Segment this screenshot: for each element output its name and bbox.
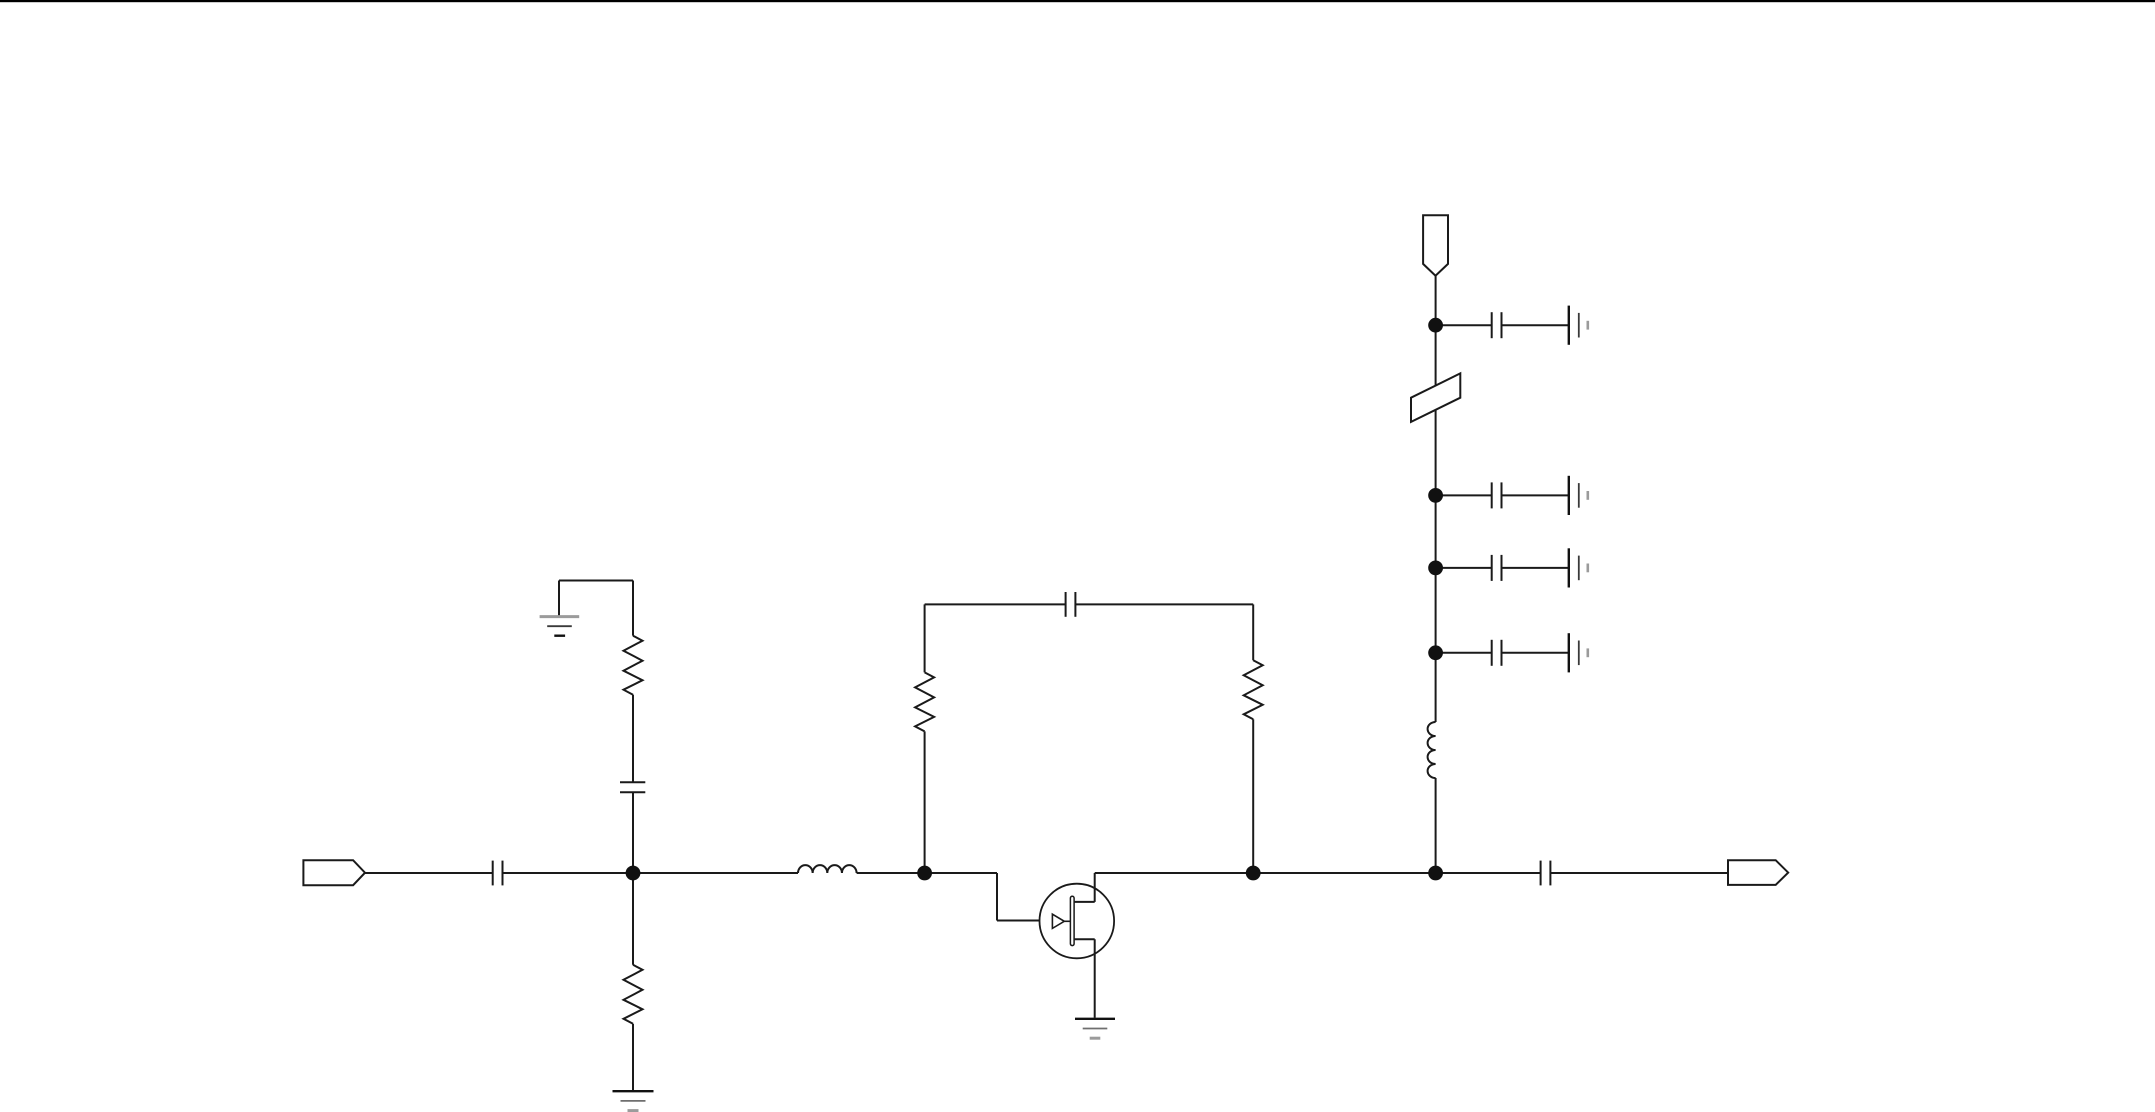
ground G2 (613, 1091, 654, 1110)
capacitor C3 plate 1 (1065, 592, 1067, 617)
wire L1 to node B (857, 872, 925, 874)
node B junction (917, 866, 932, 881)
transistor Q1 channel bar (1070, 896, 1074, 945)
wire gate vertical (996, 873, 998, 921)
wire node G to capacitor C8 (1436, 652, 1492, 654)
transistor Q1 drain tap (1074, 901, 1095, 903)
wire drain to node C (1095, 872, 1254, 874)
node C junction (1246, 866, 1261, 881)
ground G3 (1075, 1019, 1115, 1038)
wire down to resistor R4 (1252, 604, 1254, 660)
inductor L1 (798, 865, 857, 873)
transistor Q1 drain vertical (1094, 873, 1096, 902)
node D junction (1428, 866, 1443, 881)
ground G1 (540, 617, 580, 636)
wire L2 up to node E (1435, 495, 1437, 722)
node A junction (626, 866, 641, 881)
node E junction (1428, 488, 1443, 503)
wire node A down to resistor R2 (632, 873, 634, 965)
transistor Q1 gate arrow (1052, 914, 1064, 928)
capacitor C5 plate 1 (1491, 312, 1493, 338)
wire node F to capacitor C7 (1436, 567, 1492, 569)
wire node E to capacitor C6 (1436, 494, 1492, 496)
transistor Q1 source vertical (1094, 939, 1096, 1018)
ground G4 (1569, 306, 1588, 345)
resistor R3 (915, 672, 934, 731)
wire C4 to port P2 (1550, 872, 1728, 874)
wire node A up to capacitor C2 (632, 792, 634, 873)
capacitor C1 plate 2 (502, 861, 504, 886)
capacitor C4 plate 1 (1540, 861, 1542, 886)
wire C8 to ground G7 (1502, 652, 1569, 654)
ground G6 (1569, 548, 1588, 587)
wire node C to node D (1253, 872, 1435, 874)
resistor R4 (1244, 660, 1263, 719)
wire C2 to resistor R1 (632, 695, 634, 783)
transistor Q1 gate tip wire (1064, 920, 1070, 922)
capacitor C8 plate 2 (1501, 640, 1503, 666)
resistor R2 (624, 965, 643, 1024)
ground G7 (1569, 633, 1588, 672)
ground G5 (1569, 476, 1588, 515)
wire node B to gate corner (925, 872, 997, 874)
node H junction (1428, 318, 1443, 333)
wire R3 up to top rail (924, 604, 926, 672)
capacitor C6 plate 1 (1491, 482, 1493, 508)
capacitor C5 plate 2 (1501, 312, 1503, 338)
capacitor C7 plate 1 (1491, 555, 1493, 581)
wire top jog down to ground (558, 581, 560, 616)
port P3 (1423, 215, 1448, 275)
node F junction (1428, 561, 1443, 576)
wire C5 to ground G4 (1502, 324, 1569, 326)
wire C1 to node A (503, 872, 634, 874)
wire top rail right (1075, 603, 1253, 605)
wire node G up to port P3 (1435, 276, 1437, 496)
wire C6 to ground G5 (1502, 494, 1569, 496)
port P1 (303, 860, 365, 885)
node G junction (1428, 645, 1443, 660)
wire node D to capacitor C4 (1436, 872, 1541, 874)
resistor R1 (624, 636, 643, 695)
wire C7 to ground G6 (1502, 567, 1569, 569)
capacitor C4 plate 2 (1549, 861, 1551, 886)
capacitor C7 plate 2 (1501, 555, 1503, 581)
capacitor C6 plate 2 (1501, 482, 1503, 508)
capacitor C2 plate top (620, 781, 645, 783)
inductor L2 (1428, 722, 1436, 778)
wire top jog horizontal (559, 580, 633, 582)
capacitor C3 plate 2 (1074, 592, 1076, 617)
wire node A to inductor L1 (633, 872, 798, 874)
wire R1 up (632, 581, 634, 636)
port P2 (1728, 860, 1788, 885)
wire R2 to ground G2 (632, 1024, 634, 1090)
wire R4 down to node C (1252, 719, 1254, 873)
transistor Q1 body (1040, 884, 1115, 959)
top black bar (0, 0, 2155, 2)
capacitor C8 plate 1 (1491, 640, 1493, 666)
microstrip line TL1 (1411, 373, 1460, 422)
wire node D up to inductor L2 (1435, 778, 1437, 873)
port P1 input wire (365, 872, 493, 874)
capacitor C2 plate bottom (620, 791, 645, 793)
transistor Q1 source tap (1074, 938, 1095, 940)
capacitor C1 plate 1 (492, 861, 494, 886)
wire gate horizontal (997, 920, 1052, 922)
wire top rail left (925, 603, 1066, 605)
wire node B up to resistor R3 (924, 731, 926, 873)
wire node H to capacitor C5 (1436, 324, 1492, 326)
